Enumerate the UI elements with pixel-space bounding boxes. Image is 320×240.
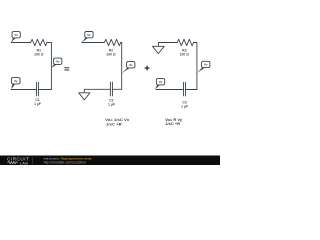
node flag Vo (middle circuit): [122, 62, 135, 74]
footer title text: [44, 157, 92, 165]
node flag Vx (left circuit): [11, 32, 20, 43]
capacitor C3: [181, 82, 188, 108]
svg-text:100 Ω: 100 Ω: [34, 53, 44, 57]
wire from R1 to right corner and down: [47, 43, 51, 90]
svg-text:1/sC +R: 1/sC +R: [106, 122, 122, 127]
wire from C2 to ground corner: [84, 89, 110, 93]
svg-text:Vo: Vo: [204, 63, 208, 67]
footer divider: [32, 157, 34, 163]
node flag Vo (right circuit): [197, 61, 210, 73]
wire from Vx to R1: [11, 42, 30, 44]
capacitor C2: [108, 82, 115, 106]
node flag Vy (left circuit): [11, 78, 20, 90]
svg-text:100 Ω: 100 Ω: [180, 53, 190, 57]
capacitor C1: [34, 82, 41, 106]
wire bottom-right of right circuit (corner to C3): [186, 89, 197, 91]
plus operator: [145, 66, 149, 70]
svg-text:1 µF: 1 µF: [108, 102, 115, 106]
footer CircuitLab logo: [7, 156, 29, 165]
svg-text:Vy: Vy: [159, 80, 163, 84]
resistor R2: [104, 39, 120, 56]
ground (right circuit): [153, 43, 165, 54]
formula annotation (middle circuit): [105, 117, 130, 126]
svg-text:Vy: Vy: [14, 79, 18, 83]
formula annotation (right circuit): [165, 117, 183, 126]
footer bar: [0, 156, 220, 166]
wire from R3 to corner and down: [194, 43, 197, 90]
svg-text:Vx: Vx: [14, 33, 18, 37]
svg-text:1 µF: 1 µF: [181, 104, 188, 108]
svg-text:1/sC +R: 1/sC +R: [165, 121, 180, 126]
equals operator: [64, 68, 69, 70]
wire bottom-right of middle circuit (corner to C2): [112, 88, 121, 90]
svg-text:Vx: Vx: [87, 33, 91, 37]
wire bottom-right of left circuit (corner to C1): [38, 89, 51, 91]
svg-text:http://circuitlab.com/czu23bn3: http://circuitlab.com/czu23bn3: [44, 160, 86, 164]
node flag Vy (right circuit): [155, 79, 165, 90]
ground (middle circuit): [79, 93, 90, 100]
node flag Vo (left circuit): [52, 58, 62, 68]
resistor R3: [177, 39, 193, 56]
resistor R1: [31, 39, 47, 56]
wire from Vx to R2: [82, 42, 105, 44]
svg-text:1 µF: 1 µF: [34, 102, 41, 106]
wire from C1 to Vy node: [11, 89, 36, 91]
wire from R2 to corner and down: [121, 43, 122, 90]
svg-text:LAB: LAB: [20, 160, 29, 165]
svg-text:Vo: Vo: [129, 63, 133, 67]
svg-text:100 Ω: 100 Ω: [106, 53, 116, 57]
wire from C3 to Vy node: [156, 89, 183, 91]
wire from ground to R3: [158, 42, 177, 44]
svg-text:Vo: Vo: [56, 59, 60, 63]
node flag Vx (middle circuit): [82, 32, 94, 43]
